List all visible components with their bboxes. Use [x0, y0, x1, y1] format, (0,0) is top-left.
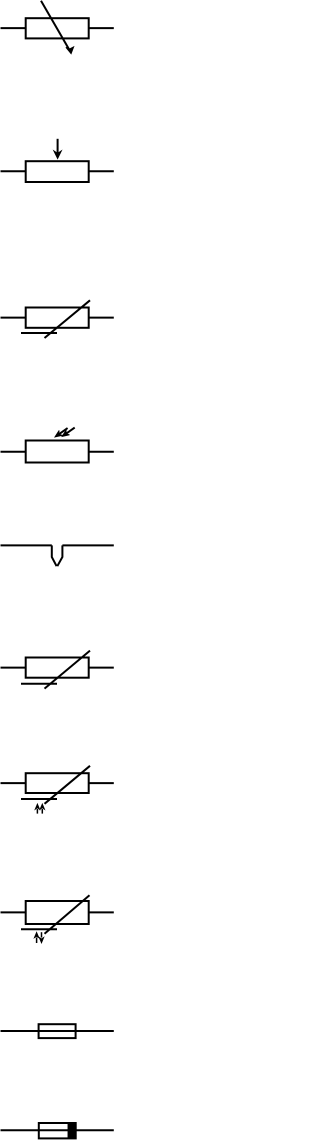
up arrow 2: [41, 809, 43, 814]
preset bar: [21, 683, 57, 685]
fuse F1 (fusible element / funnel notch in line): [1, 545, 114, 566]
wire: [1, 27, 26, 29]
wire: [1, 911, 26, 913]
resistor body R3: [26, 308, 89, 328]
resistor body R7: [26, 901, 89, 924]
resistor body R1: [26, 18, 89, 38]
preset bar: [21, 928, 57, 930]
resistor body R4: [26, 441, 89, 463]
wire: [1, 1030, 114, 1032]
fuse body F3: [39, 1123, 76, 1138]
wire: [89, 451, 114, 453]
up arrow: [36, 938, 38, 944]
wire: [89, 667, 114, 669]
striker block: [68, 1123, 76, 1138]
wire: [89, 782, 114, 784]
wire: [89, 317, 114, 319]
diagonal: [45, 300, 91, 338]
resistor R7 (preset resistor with up-down arrows): [1, 895, 114, 943]
resistor R4 (photoresistor LDR, two incoming arrows): [1, 428, 114, 463]
diagonal: [45, 895, 90, 934]
wire: [1, 317, 26, 319]
diagonal: [45, 651, 91, 689]
wire: [1, 451, 26, 453]
diagonal: [45, 766, 91, 804]
resistor body R6: [26, 773, 89, 793]
preset bar: [21, 798, 57, 800]
wire: [1, 1129, 114, 1131]
fuse body F2: [39, 1024, 76, 1038]
light arrow 1: [59, 428, 68, 434]
fuse F3 (fuse with striker block): [1, 1123, 114, 1138]
resistor R3 (preset/trimmer resistor, diagonal with bottom bar): [1, 300, 114, 338]
notch left: [52, 545, 57, 566]
wire: [1, 544, 52, 546]
wire: [62, 544, 113, 546]
resistor R1 (variable resistor, arrow through body): [1, 1, 114, 54]
wire: [1, 170, 26, 172]
wire: [89, 911, 114, 913]
resistor body R2: [26, 161, 89, 182]
wire: [1, 667, 26, 669]
resistor R5 (preset/trimmer resistor): [1, 651, 114, 689]
wire: [89, 170, 114, 172]
preset bar: [21, 332, 57, 334]
wire: [89, 27, 114, 29]
adjustment arrow: [41, 1, 69, 49]
wire: [1, 782, 26, 784]
fuse F2 (fuse): [1, 1024, 114, 1038]
up arrow 1: [36, 809, 38, 814]
resistor R2 (resistor with contact arrow from top): [1, 139, 114, 182]
resistor body R5: [26, 658, 89, 678]
notch right: [57, 545, 62, 566]
down arrow: [41, 932, 43, 937]
resistor R6 (preset resistor with two up arrows): [1, 766, 114, 814]
light arrow 2: [66, 428, 75, 434]
contact arrow: [57, 139, 59, 153]
